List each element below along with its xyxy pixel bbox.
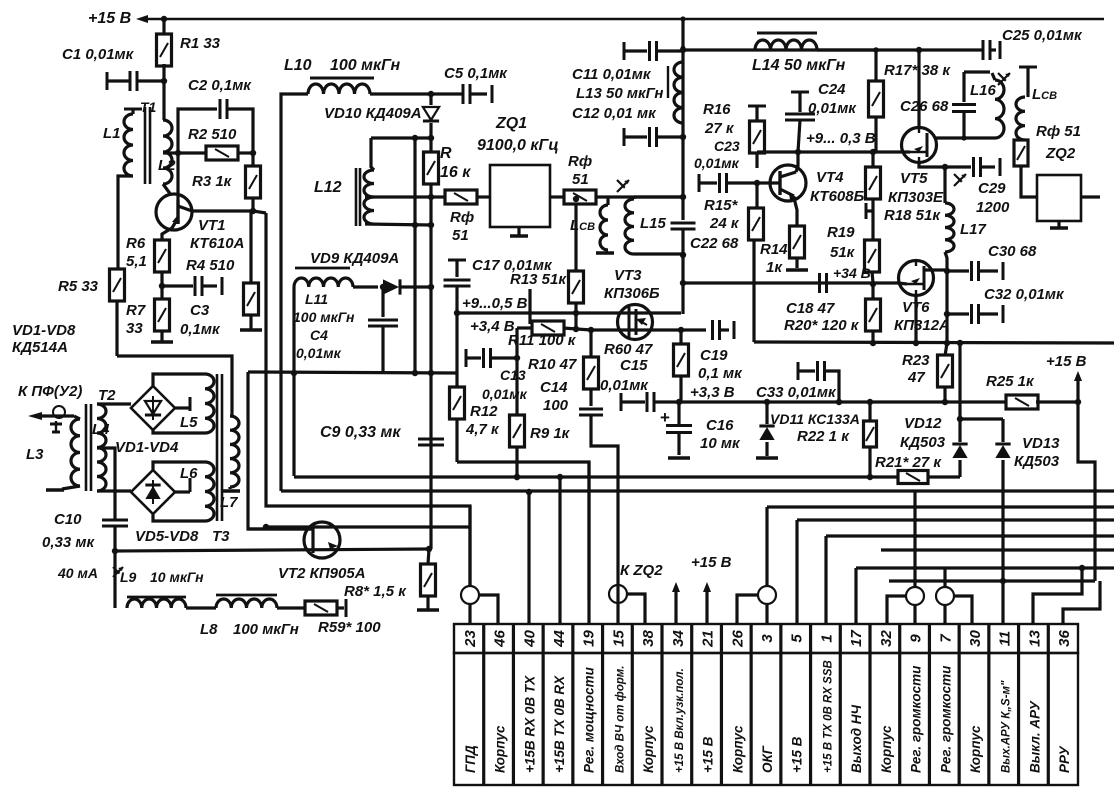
svg-text:ZQ1: ZQ1 bbox=[495, 115, 527, 132]
svg-text:4,7 к: 4,7 к bbox=[465, 421, 500, 438]
svg-text:C2 0,1мк: C2 0,1мк bbox=[188, 77, 252, 94]
svg-text:R16: R16 bbox=[703, 101, 731, 118]
svg-text:19: 19 bbox=[581, 630, 598, 647]
node busA junctions bbox=[514, 474, 520, 480]
svg-text:L12: L12 bbox=[314, 179, 342, 196]
transformer T3 core bbox=[216, 374, 219, 521]
svg-text:Рег. мощности: Рег. мощности bbox=[582, 666, 597, 773]
inductor L12 bbox=[364, 170, 374, 224]
node VT6 drain junction bbox=[944, 268, 950, 274]
svg-text:0,01мк: 0,01мк bbox=[600, 377, 649, 394]
svg-text:Rф 51: Rф 51 bbox=[1036, 123, 1081, 140]
svg-text:+15В RX 0В TX: +15В RX 0В TX bbox=[522, 675, 537, 773]
svg-text:РРУ: РРУ bbox=[1057, 746, 1072, 773]
svg-text:L4: L4 bbox=[92, 421, 110, 438]
svg-text:VT3: VT3 bbox=[614, 267, 642, 284]
resistor R60 bbox=[679, 330, 682, 345]
transformer T2 core bbox=[85, 404, 88, 491]
resistor R14 bbox=[790, 226, 805, 258]
inductor L4 bbox=[97, 404, 106, 491]
svg-text:КТ610А: КТ610А bbox=[190, 235, 244, 252]
inductor L9 core bbox=[127, 596, 186, 599]
svg-text:40: 40 bbox=[521, 630, 538, 648]
svg-text:R: R bbox=[440, 145, 452, 162]
capacitor C9 bbox=[418, 438, 444, 441]
coupling mark X3 bbox=[998, 73, 1010, 85]
svg-text:0,1 мк: 0,1 мк bbox=[698, 365, 743, 382]
svg-text:VD5-VD8: VD5-VD8 bbox=[135, 528, 199, 545]
inductor L11 bbox=[294, 278, 353, 287]
svg-text:33: 33 bbox=[126, 320, 143, 337]
wire tank top bbox=[371, 136, 431, 139]
wire R11 net bbox=[517, 326, 533, 329]
capacitor C33 bbox=[797, 362, 800, 380]
svg-text:R60 47: R60 47 bbox=[604, 341, 653, 358]
svg-text:L3: L3 bbox=[26, 446, 44, 463]
svg-text:40 мА: 40 мА bbox=[57, 565, 98, 581]
wire L12 bottom bbox=[365, 224, 431, 225]
svg-text:Рег. громкости: Рег. громкости bbox=[909, 665, 924, 773]
svg-text:5,1: 5,1 bbox=[126, 253, 147, 270]
diode VD10 bbox=[429, 94, 432, 105]
wire L11 to VD9 bbox=[353, 285, 378, 288]
diode VD13 bbox=[1001, 419, 1004, 442]
svg-text:VD1-VD4: VD1-VD4 bbox=[115, 439, 179, 456]
wire pin3 feed bbox=[765, 507, 768, 586]
svg-text:+15 В Вкл.узк.пол.: +15 В Вкл.узк.пол. bbox=[674, 668, 686, 773]
svg-text:C13: C13 bbox=[500, 367, 526, 383]
resistor R22 bbox=[868, 402, 871, 420]
svg-text:100: 100 bbox=[543, 397, 569, 414]
svg-text:L17: L17 bbox=[960, 221, 987, 238]
wire y373 line bbox=[248, 372, 457, 373]
svg-text:R14: R14 bbox=[760, 241, 788, 258]
svg-text:C24: C24 bbox=[818, 81, 846, 98]
wire ZQ1 out bbox=[550, 195, 566, 198]
inductor L5 bbox=[205, 374, 214, 433]
inductor L10 core bbox=[310, 77, 374, 80]
wire C13 node up bbox=[515, 328, 518, 358]
wire pin13 feed bbox=[1033, 568, 1082, 624]
inductor L17 bbox=[943, 167, 946, 203]
svg-text:КТ608Б: КТ608Б bbox=[810, 188, 865, 205]
wire pin5 feed bbox=[795, 520, 798, 624]
resistor R5 bbox=[116, 269, 119, 272]
wire rail drop x683 bbox=[681, 19, 684, 197]
svg-text:0,01мк: 0,01мк bbox=[808, 100, 857, 117]
inductor L3 bbox=[74, 416, 80, 419]
capacitor C10 bbox=[102, 519, 128, 522]
resistor R17 bbox=[874, 50, 877, 81]
svg-text:L10: L10 bbox=[284, 57, 312, 74]
svg-text:L16: L16 bbox=[970, 82, 997, 99]
wire L4 tap to C10 bbox=[97, 448, 115, 519]
diode VD11 (zener) bbox=[765, 402, 768, 424]
inductor L14 bbox=[755, 40, 817, 50]
node tank crossings bbox=[428, 194, 434, 200]
wire VT1 out drop (line C src) bbox=[266, 213, 470, 586]
wire L9-L8 bbox=[186, 606, 216, 609]
svg-text:Корпус: Корпус bbox=[641, 725, 656, 773]
wire ZQ2 right lead bbox=[1081, 195, 1100, 198]
inductor L6 bbox=[205, 462, 214, 521]
capacitor C13 bbox=[465, 349, 468, 367]
transistor VT2 bbox=[304, 522, 340, 558]
node busB junctions bbox=[526, 489, 532, 495]
capacitor C19 bbox=[711, 320, 714, 340]
svg-text:15: 15 bbox=[610, 630, 627, 647]
svg-text:1к: 1к bbox=[766, 259, 783, 276]
ground C16 bbox=[668, 456, 690, 459]
capacitor C24 bbox=[791, 91, 809, 94]
node VD9/x431 bbox=[428, 284, 434, 290]
wire VT5 source bbox=[919, 162, 945, 167]
connector XS1 table bbox=[454, 624, 1078, 653]
node VT5 source bbox=[942, 164, 948, 170]
svg-text:R3 1к: R3 1к bbox=[192, 173, 233, 190]
svg-text:Вых.АРУ К„S-м": Вых.АРУ К„S-м" bbox=[1001, 680, 1013, 773]
svg-text:36: 36 bbox=[1056, 630, 1073, 647]
svg-text:C19: C19 bbox=[700, 347, 728, 364]
resistor R9 bbox=[515, 358, 518, 416]
node L16 bottom line bbox=[961, 135, 966, 140]
wire R5 to L7 bbox=[117, 356, 232, 416]
svg-text:C3: C3 bbox=[190, 302, 210, 319]
wire pin17 feed bbox=[854, 568, 857, 624]
node C13/R9 bbox=[514, 355, 520, 361]
capacitor C4 bbox=[381, 287, 384, 317]
svg-text:C23: C23 bbox=[714, 138, 740, 154]
svg-text:R12: R12 bbox=[470, 403, 498, 420]
svg-text:VT1: VT1 bbox=[198, 217, 226, 234]
wire bus A y477 bbox=[294, 475, 898, 478]
capacitor C17 bbox=[444, 279, 471, 282]
node L2 tap/base bbox=[163, 151, 208, 154]
resistor R25 bbox=[945, 400, 1008, 403]
svg-text:+15 В: +15 В bbox=[701, 736, 716, 773]
capacitor C14 bbox=[579, 408, 603, 411]
node y373 junctions bbox=[412, 370, 418, 376]
svg-text:VT5: VT5 bbox=[900, 170, 928, 187]
node R22 top bbox=[867, 399, 873, 405]
svg-text:КД514А: КД514А bbox=[12, 339, 68, 356]
svg-text:16 к: 16 к bbox=[440, 164, 471, 181]
svg-text:+15 В: +15 В bbox=[1046, 353, 1087, 370]
svg-text:17: 17 bbox=[848, 630, 865, 647]
node VT1 collector junction bbox=[250, 208, 256, 214]
svg-text:26: 26 bbox=[729, 630, 746, 648]
wire pin9 coax bbox=[913, 491, 916, 587]
wire VT3 source right bbox=[591, 328, 706, 331]
svg-text:Корпус: Корпус bbox=[968, 725, 983, 773]
svg-text:34: 34 bbox=[670, 630, 687, 647]
wire y581 seg bbox=[889, 579, 1095, 582]
svg-text:К ПФ(У2): К ПФ(У2) bbox=[18, 383, 82, 400]
resistor R21 bbox=[898, 471, 928, 484]
wire L4 top to bridge1 bbox=[97, 402, 131, 405]
svg-text:R4 510: R4 510 bbox=[186, 257, 235, 274]
resistor Rф 51 (left) bbox=[445, 190, 477, 204]
svg-text:C32 0,01мк: C32 0,01мк bbox=[984, 286, 1065, 303]
coupling mark X1 bbox=[617, 180, 629, 192]
wire x683 low spine bbox=[681, 254, 684, 314]
node C4 tap bbox=[380, 284, 386, 290]
svg-text:L8: L8 bbox=[200, 621, 218, 638]
terminal К ПФ arrow bbox=[40, 414, 74, 417]
svg-text:7: 7 bbox=[937, 634, 954, 643]
svg-text:C25 0,01мк: C25 0,01мк bbox=[1002, 27, 1083, 44]
svg-text:КП312А: КП312А bbox=[894, 317, 950, 334]
wire x431 spine bbox=[429, 225, 432, 549]
inductor L14 core bbox=[757, 32, 817, 35]
svg-text:VD11 КС133А: VD11 КС133А bbox=[770, 411, 860, 427]
wire C10 to L9 bbox=[113, 551, 116, 608]
wire VT6 gate line bbox=[683, 281, 898, 284]
inductor L16 bbox=[995, 80, 1004, 138]
resistor R12 bbox=[455, 373, 458, 388]
wire pin36 feed bbox=[1063, 581, 1100, 624]
capacitor C15 bbox=[620, 393, 623, 411]
svg-text:C9 0,33 мк: C9 0,33 мк bbox=[320, 424, 401, 441]
wire VT6 source bbox=[914, 296, 917, 342]
inductor L15 bbox=[632, 197, 635, 199]
wire L15 top tie bbox=[634, 195, 683, 198]
diode bridge VD5-VD8 bbox=[131, 470, 175, 514]
node VD10/R junction bbox=[428, 135, 434, 141]
wire y550 right line bbox=[881, 548, 1114, 551]
wire bridge1 loop top bbox=[153, 374, 205, 386]
transistor VT1 bbox=[156, 194, 192, 230]
inductor Lсв2 stub bbox=[1019, 66, 1037, 69]
wire pin1 feed bbox=[824, 536, 827, 624]
ground R4 bbox=[240, 328, 262, 331]
svg-text:0,01мк: 0,01мк bbox=[296, 345, 342, 361]
resistor R8 bbox=[428, 549, 429, 564]
svg-text:R6: R6 bbox=[126, 235, 146, 252]
resistor R19 bbox=[865, 240, 880, 272]
svg-text:3: 3 bbox=[759, 634, 776, 643]
svg-text:C10: C10 bbox=[54, 511, 82, 528]
capacitor C30 bbox=[947, 269, 969, 272]
node C23/R16/R15 bbox=[754, 180, 760, 186]
wire +3,3V line bbox=[679, 400, 945, 403]
capacitor C3 bbox=[162, 284, 193, 287]
svg-text:30: 30 bbox=[967, 630, 984, 647]
svg-text:ГПД: ГПД bbox=[463, 745, 478, 773]
node R60 top bbox=[678, 327, 684, 333]
ground ZQ1 bbox=[517, 227, 520, 235]
svg-text:51к: 51к bbox=[830, 244, 856, 261]
svg-text:C22 68: C22 68 bbox=[690, 235, 739, 252]
svg-text:+15 В TX 0В RX SSB: +15 В TX 0В RX SSB bbox=[822, 660, 834, 773]
svg-text:R10 47: R10 47 bbox=[528, 356, 577, 373]
svg-text:ZQ2: ZQ2 bbox=[1045, 145, 1076, 162]
node R2/R3 junction bbox=[250, 150, 256, 156]
resistor R23 bbox=[945, 343, 947, 356]
svg-text:L15: L15 bbox=[640, 215, 667, 232]
svg-text:10 мк: 10 мк bbox=[700, 435, 741, 452]
svg-text:L13 50 мкГн: L13 50 мкГн bbox=[576, 85, 663, 102]
transistor VT4 bbox=[770, 165, 806, 201]
capacitor C11 bbox=[623, 42, 626, 60]
svg-text:L2: L2 bbox=[158, 157, 176, 174]
resistor R10 bbox=[589, 330, 592, 358]
svg-text:VD1-VD8: VD1-VD8 bbox=[12, 322, 76, 339]
wire bus B y491 bbox=[281, 489, 915, 492]
svg-text:R22 1 к: R22 1 к bbox=[797, 428, 850, 445]
ground L7 bbox=[228, 487, 231, 489]
node C10 bottom junction bbox=[112, 548, 118, 554]
wire VT5 gate bbox=[873, 150, 910, 153]
resistor R20 bbox=[871, 284, 874, 300]
svg-text:0,1мк: 0,1мк bbox=[180, 321, 221, 338]
svg-text:C18 47: C18 47 bbox=[786, 300, 835, 317]
svg-text:Корпус: Корпус bbox=[730, 725, 745, 773]
wire y520 right line bbox=[797, 518, 1114, 521]
inductor L13 bbox=[674, 62, 683, 123]
svg-text:10 мкГн: 10 мкГн bbox=[150, 569, 204, 585]
svg-text:R59* 100: R59* 100 bbox=[318, 619, 381, 636]
diode VD9 bbox=[383, 279, 399, 294]
transistor VT5 bbox=[902, 128, 937, 163]
node L10/VD10/C5 bbox=[428, 91, 434, 97]
inductor L1 bbox=[124, 114, 133, 176]
node VD11 junction bbox=[764, 399, 770, 405]
ground R7 bbox=[151, 340, 173, 343]
resistor R16 bbox=[750, 121, 765, 153]
wire gate line y313 bbox=[457, 311, 681, 314]
svg-text:0,01мк: 0,01мк bbox=[482, 386, 528, 402]
node L14 line left bbox=[681, 46, 686, 51]
wire L10 left drop (bus B src) bbox=[281, 94, 308, 491]
wire y527 line from VT1 drop bbox=[266, 525, 470, 528]
wire L12 tap to Rf bbox=[365, 195, 445, 198]
resistor Rф 51 (mid) bbox=[564, 190, 596, 204]
node R9 to busA bbox=[514, 474, 520, 480]
resistor R 16к bbox=[429, 136, 432, 154]
node x683/y283 bbox=[680, 280, 686, 286]
svg-text:КД503: КД503 bbox=[900, 434, 946, 451]
svg-text:VD13: VD13 bbox=[1022, 435, 1060, 452]
svg-text:R15*: R15* bbox=[704, 197, 739, 214]
transistor VT6 bbox=[899, 261, 934, 296]
wire x960 drop bbox=[958, 343, 961, 419]
svg-text:C33 0,01мк: C33 0,01мк bbox=[756, 384, 837, 401]
svg-text:13: 13 bbox=[1026, 630, 1043, 647]
svg-text:К ZQ2: К ZQ2 bbox=[620, 562, 663, 579]
svg-text:11: 11 bbox=[997, 631, 1014, 647]
svg-text:21: 21 bbox=[700, 630, 717, 648]
svg-text:+34 В: +34 В bbox=[833, 265, 871, 281]
crystal ZQ2 bbox=[1037, 175, 1081, 221]
svg-text:38: 38 bbox=[640, 630, 657, 647]
inductor L2 bbox=[163, 120, 172, 184]
wire busB right ext bbox=[915, 489, 1114, 492]
wire pin40 drop bbox=[527, 492, 530, 624]
inductor L11 core bbox=[295, 267, 350, 270]
svg-text:R19: R19 bbox=[827, 224, 855, 241]
wire y536 right line bbox=[826, 534, 1114, 537]
inductor L8 core bbox=[216, 594, 277, 597]
svg-text:+15 В: +15 В bbox=[88, 10, 131, 27]
svg-text:L11: L11 bbox=[305, 291, 328, 307]
transformer T1 core bbox=[144, 107, 147, 184]
svg-text:+15В TX 0В RX: +15В TX 0В RX bbox=[552, 675, 567, 773]
wire bridge2 stub bbox=[175, 490, 190, 493]
capacitor C12 bbox=[623, 128, 626, 146]
ground Lсв bbox=[596, 251, 614, 254]
svg-text:R8* 1,5 к: R8* 1,5 к bbox=[344, 583, 407, 600]
wire VT2 source line bbox=[115, 549, 429, 551]
wire VT6 drain bbox=[924, 268, 947, 271]
svg-text:C29: C29 bbox=[978, 180, 1006, 197]
svg-text:Корпус: Корпус bbox=[493, 725, 508, 773]
capacitor C5 bbox=[462, 84, 465, 104]
svg-text:9: 9 bbox=[908, 634, 925, 643]
svg-text:+15 В: +15 В bbox=[790, 736, 805, 773]
svg-text:R7: R7 bbox=[126, 302, 146, 319]
svg-text:C4: C4 bbox=[310, 327, 328, 343]
wire x947 drop bbox=[945, 271, 948, 314]
capacitor C29 bbox=[945, 165, 971, 168]
svg-text:C30 68: C30 68 bbox=[988, 243, 1037, 260]
svg-text:100 мкГн: 100 мкГн bbox=[293, 309, 355, 325]
svg-text:51: 51 bbox=[572, 171, 589, 188]
node y419 bbox=[957, 416, 963, 422]
resistor R59 bbox=[305, 601, 337, 615]
svg-text:Выкл. АРУ: Выкл. АРУ bbox=[1027, 700, 1042, 773]
capacitor C32 bbox=[947, 312, 969, 315]
svg-text:+15 В: +15 В bbox=[691, 554, 732, 571]
node +3,3V line left bbox=[676, 399, 682, 405]
svg-text:Выход НЧ: Выход НЧ bbox=[849, 704, 864, 773]
resistor R18 bbox=[871, 152, 874, 168]
svg-text:100 мкГн: 100 мкГн bbox=[233, 621, 299, 638]
wire pin44 drop bbox=[558, 477, 561, 624]
svg-text:27 к: 27 к bbox=[704, 120, 735, 137]
wire L10 to C5 node bbox=[370, 92, 462, 95]
+15V arrow pin34 bbox=[674, 586, 677, 624]
node x683/y197 bbox=[680, 194, 686, 200]
wire L8-R59 bbox=[277, 606, 305, 609]
resistor Rф right bbox=[1014, 140, 1028, 166]
svg-text:Вход ВЧ от форм.: Вход ВЧ от форм. bbox=[614, 666, 626, 773]
+15V arrow right bbox=[1076, 375, 1079, 402]
svg-text:L7: L7 bbox=[220, 494, 238, 511]
diode VD12 bbox=[958, 419, 961, 442]
capacitor C2 bbox=[178, 109, 217, 153]
wire VT2 gate drop bbox=[248, 372, 313, 529]
svg-text:C16: C16 bbox=[706, 417, 734, 434]
svg-text:24 к: 24 к bbox=[709, 215, 740, 232]
wire y462 line bbox=[457, 462, 589, 600]
svg-text:C12 0,01 мк: C12 0,01 мк bbox=[572, 105, 657, 122]
svg-text:C11 0,01мк: C11 0,01мк bbox=[572, 66, 652, 83]
svg-text:R1 33: R1 33 bbox=[180, 35, 221, 52]
svg-text:L14 50 мкГн: L14 50 мкГн bbox=[752, 57, 846, 74]
node L15 bottom bbox=[680, 251, 685, 256]
wire L2 top feed bbox=[162, 81, 165, 120]
inductor Lсв2 bbox=[1016, 97, 1025, 140]
capacitor C17 stub bbox=[448, 259, 466, 262]
ground L3 bbox=[46, 488, 64, 491]
svg-text:1: 1 bbox=[818, 634, 835, 642]
svg-text:ОКГ: ОКГ bbox=[760, 745, 775, 773]
node C11 junction bbox=[680, 47, 686, 53]
wire pin23 coax bbox=[461, 586, 479, 604]
wire y507 right line bbox=[767, 505, 1114, 508]
wire x1078 down bbox=[1078, 402, 1095, 581]
